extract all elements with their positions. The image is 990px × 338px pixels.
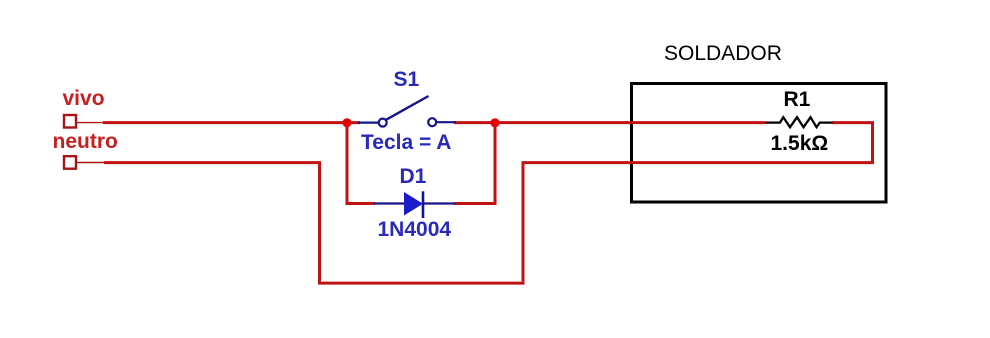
resistor R1 <box>766 117 833 127</box>
svg-text:1.5kΩ: 1.5kΩ <box>771 132 829 155</box>
svg-text:1N4004: 1N4004 <box>378 218 452 241</box>
box SOLDADOR <box>632 84 887 203</box>
svg-text:R1: R1 <box>784 88 811 111</box>
svg-text:vivo: vivo <box>63 87 105 110</box>
wire branch right leg of S1/D1 loop <box>454 123 495 205</box>
svg-text:D1: D1 <box>400 165 427 188</box>
wire S1 right to junction B and into box to R1 <box>454 121 767 124</box>
svg-text:Tecla = A: Tecla = A <box>361 131 451 154</box>
wire R1 right lead to box corner down and return to neutro terminal <box>104 123 873 285</box>
wire vivo to S1 junction <box>103 121 360 124</box>
wire branch left leg of S1/D1 loop <box>346 123 376 204</box>
svg-text:S1: S1 <box>394 68 420 91</box>
node B junction dot <box>490 118 499 127</box>
switch S1 <box>358 96 456 127</box>
svg-text:SOLDADOR: SOLDADOR <box>664 42 782 65</box>
terminal vivo <box>64 115 104 128</box>
diode D1 <box>374 191 455 218</box>
node A junction dot <box>342 118 351 127</box>
terminal neutro <box>64 156 104 169</box>
svg-text:neutro: neutro <box>53 130 118 153</box>
